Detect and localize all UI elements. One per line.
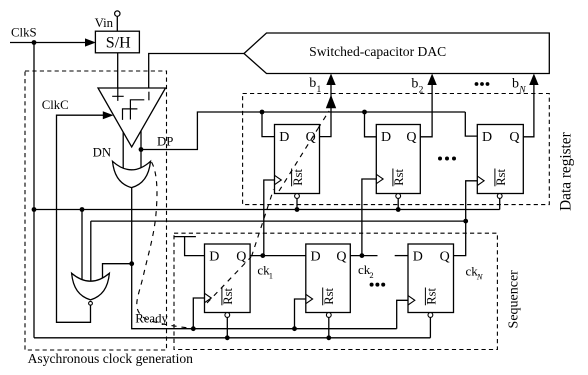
svg-text:Data register: Data register xyxy=(557,132,574,211)
svg-text:Rst: Rst xyxy=(494,169,508,186)
svg-text:b: b xyxy=(512,77,519,92)
svg-text:ClkC: ClkC xyxy=(42,98,69,112)
svg-text:S/H: S/H xyxy=(106,35,131,52)
svg-text:Q: Q xyxy=(236,249,246,264)
svg-text:Rst: Rst xyxy=(221,288,235,305)
svg-text:1: 1 xyxy=(317,85,322,95)
svg-text:Q: Q xyxy=(440,249,450,264)
svg-text:2: 2 xyxy=(369,270,373,280)
svg-text:Switched-capacitor DAC: Switched-capacitor DAC xyxy=(309,44,446,59)
svg-text:ClkS: ClkS xyxy=(11,26,37,40)
svg-text:D: D xyxy=(482,130,492,145)
svg-text:Q: Q xyxy=(306,130,316,145)
svg-text:b: b xyxy=(309,76,316,91)
svg-text:Ready: Ready xyxy=(135,312,168,326)
svg-text:D: D xyxy=(381,130,391,145)
svg-text:D: D xyxy=(279,130,289,145)
svg-text:DP: DP xyxy=(157,135,173,149)
svg-text:N: N xyxy=(518,86,526,96)
svg-text:D: D xyxy=(413,249,423,264)
svg-text:Vin: Vin xyxy=(95,16,114,30)
svg-text:Sequencer: Sequencer xyxy=(507,270,522,329)
svg-text:2: 2 xyxy=(419,86,424,96)
svg-text:Rst: Rst xyxy=(425,288,439,305)
svg-text:Rst: Rst xyxy=(322,288,336,305)
svg-text:Asychronous clock generation: Asychronous clock generation xyxy=(28,351,194,366)
svg-text:b: b xyxy=(411,77,418,92)
svg-text:Rst: Rst xyxy=(392,169,406,186)
svg-text:Q: Q xyxy=(406,130,416,145)
svg-text:D: D xyxy=(209,249,219,264)
svg-text:DN: DN xyxy=(93,146,111,160)
svg-text:Q: Q xyxy=(509,130,519,145)
svg-text:Rst: Rst xyxy=(291,169,305,186)
svg-text:Q: Q xyxy=(336,249,346,264)
svg-text:D: D xyxy=(311,249,321,264)
svg-text:1: 1 xyxy=(269,271,273,281)
